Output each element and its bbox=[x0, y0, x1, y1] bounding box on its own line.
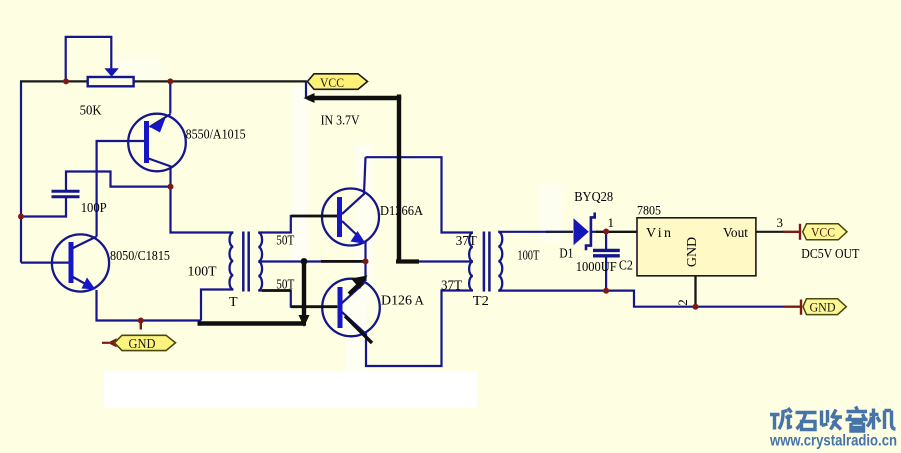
power port GND (right) bbox=[803, 299, 846, 315]
svg-text:100P: 100P bbox=[81, 201, 107, 216]
svg-text:Vin: Vin bbox=[646, 226, 671, 241]
black overdraw: Q3 base wire bbox=[291, 215, 337, 218]
transistor Q3 emitter with arrow bbox=[342, 221, 359, 237]
capacitor C1 100P plates bbox=[52, 190, 80, 193]
wire: Q3 collector to T2 primary top bbox=[366, 157, 473, 232]
junction dot node Q1 collector bbox=[168, 184, 174, 190]
capacitor C2 1000UF plates bbox=[593, 249, 620, 252]
svg-text:D126: D126 bbox=[381, 294, 412, 309]
transistor Q2 collector diagonal bbox=[73, 237, 97, 249]
wire: T secondary top to Q3 base bbox=[258, 216, 338, 233]
svg-text:2: 2 bbox=[675, 299, 690, 306]
svg-text:BYQ28: BYQ28 bbox=[574, 190, 613, 205]
wire: Q3 emitter junction vertical bbox=[364, 242, 366, 262]
svg-text:8550/A1015: 8550/A1015 bbox=[186, 128, 246, 143]
transistor Q3 collector diagonal bbox=[342, 157, 366, 214]
transistor Q4 emitter diagonal (up) bbox=[342, 283, 364, 303]
svg-text:37T: 37T bbox=[441, 279, 462, 294]
junction dot (black) centre tap bbox=[301, 258, 308, 265]
black overdraw: Q4 collector diagonal bbox=[345, 316, 372, 343]
junction dot node pot right / Q1 emitter bbox=[167, 78, 173, 84]
wire: T2 secondary bottom rail bbox=[498, 291, 783, 307]
wire: Q1 emitter feed from top rail bbox=[169, 81, 171, 113]
transistor Q2 emitter with arrow bbox=[73, 277, 90, 287]
wire: C2 bottom lead bbox=[605, 256, 607, 291]
erased white streak near diode bbox=[540, 184, 562, 242]
wire: Vout pin to flag (black) bbox=[756, 231, 784, 233]
junction dot node C2 bottom bbox=[603, 288, 609, 294]
svg-text:C2: C2 bbox=[619, 259, 633, 274]
wire: Q4 collector to T2 primary bottom bbox=[366, 291, 473, 367]
black overdraw: emitter junction line bbox=[321, 260, 364, 263]
svg-text:3: 3 bbox=[777, 215, 784, 230]
wire: Q2 base feed bbox=[21, 262, 69, 264]
svg-text:8050/C1815: 8050/C1815 bbox=[110, 249, 170, 264]
power port GND (left) with red arrow bbox=[102, 342, 109, 344]
svg-text:DC5V OUT: DC5V OUT bbox=[801, 247, 859, 262]
svg-text:1000UF: 1000UF bbox=[576, 260, 617, 275]
svg-text:VCC: VCC bbox=[320, 75, 344, 90]
regulator U1 7805 body bbox=[637, 218, 756, 276]
svg-text:50K: 50K bbox=[80, 103, 102, 118]
wire: T secondary bottom to Q4 base bbox=[258, 291, 338, 307]
transistor Q4 collector diagonal (down) bbox=[342, 312, 366, 334]
svg-text:GND: GND bbox=[685, 237, 700, 267]
thick black annotation: centre tap to ground bbox=[302, 263, 306, 318]
wire: top rail (black annotated) bbox=[20, 80, 307, 82]
wire: Q1 collector down to transformer T bbox=[171, 166, 234, 233]
transformer T2 secondary coil 100T bbox=[498, 232, 502, 291]
thick black annotation: ground rail bbox=[198, 321, 307, 325]
erased white streak near potentiometer bbox=[113, 57, 161, 81]
wire: cathode to 7805 Vin (black) bbox=[596, 231, 637, 233]
svg-text:VCC: VCC bbox=[811, 225, 835, 240]
wire: pot wiper loop bbox=[66, 37, 112, 82]
wire: T secondary centre tap line bbox=[258, 260, 365, 262]
black overdraw: Q4 base wire bbox=[291, 305, 337, 308]
wire: T2 primary centre tap bbox=[399, 260, 473, 262]
svg-text:GND: GND bbox=[810, 300, 836, 315]
svg-text:50T: 50T bbox=[276, 233, 294, 248]
transistor Q2 base bar bbox=[69, 242, 74, 283]
transistor Q3 base bar bbox=[337, 197, 342, 237]
wire: T2 secondary top to diode anode bbox=[498, 231, 573, 233]
wire: 100P top lead to Q1 collector bbox=[66, 172, 169, 192]
potentiometer wiper arrow bbox=[104, 68, 118, 77]
junction dot node diode/C2/Vin bbox=[603, 229, 609, 235]
thick black annotation: VCC feed line with arrow bbox=[308, 98, 399, 261]
wire: C2 top lead bbox=[605, 232, 607, 251]
svg-text:1: 1 bbox=[608, 215, 615, 230]
watermark crystalradio logo (CJK strokes) bbox=[770, 407, 896, 432]
svg-text:T2: T2 bbox=[473, 294, 489, 309]
svg-text:D1266A: D1266A bbox=[380, 204, 424, 219]
wire: T primary bottom return bbox=[201, 290, 233, 321]
svg-text:A: A bbox=[415, 293, 425, 308]
diode D1 BYQ28 triangle bbox=[574, 218, 589, 245]
wire: diode cathode stub bbox=[591, 231, 598, 233]
transformer T secondary coils 50T+50T bbox=[258, 233, 262, 291]
transistor Q2 8050/C1815 circle bbox=[52, 234, 109, 291]
wire: VCC flag stub down to annotation bbox=[305, 83, 307, 98]
wire: Q4 emitter junction vertical bbox=[364, 262, 366, 282]
transformer T2 primary coils 37T+37T bbox=[469, 233, 473, 291]
transformer T2 core bbox=[483, 232, 486, 292]
transistor Q1 emitter with arrow bbox=[150, 114, 171, 127]
transformer T primary coil 100T bbox=[229, 233, 233, 290]
transformer T core bbox=[242, 232, 245, 292]
wire red stub to GND flag (right) bbox=[783, 306, 801, 308]
svg-text:T: T bbox=[229, 295, 238, 310]
big white erased rectangle bbox=[104, 372, 477, 409]
junction dot node emitter junction bbox=[363, 258, 369, 264]
transistor Q1 collector diagonal bbox=[149, 159, 172, 167]
svg-text:7805: 7805 bbox=[637, 203, 661, 218]
transistor Q1 8550/A1015 circle bbox=[128, 114, 186, 172]
wire: Q1 base vertical from Q2 collector bbox=[97, 141, 145, 237]
svg-text:IN 3.7V: IN 3.7V bbox=[321, 113, 360, 128]
svg-text:100T: 100T bbox=[517, 249, 539, 264]
transistor Q3 D1266A circle bbox=[322, 189, 379, 246]
black overdraw: 50T bottom lead bbox=[262, 289, 291, 292]
wire: left rail vertical bbox=[20, 81, 22, 262]
diode D1 cathode bar with schottky hooks bbox=[586, 213, 595, 251]
GND stub below ground rail bbox=[140, 321, 142, 330]
junction dot node ground rail bbox=[138, 318, 144, 324]
transistor Q4 D1266A circle bbox=[322, 279, 380, 337]
svg-text:www.crystalradio.cn: www.crystalradio.cn bbox=[769, 433, 897, 450]
potentiometer R1 50K body bbox=[88, 77, 134, 86]
junction dot node left rail / 100P bbox=[18, 214, 24, 220]
svg-text:37T: 37T bbox=[456, 234, 477, 249]
wire: 100P bottom lead to left rail bbox=[21, 197, 66, 217]
junction dot node 7805 GND bbox=[693, 304, 699, 310]
black annotation: Q4 emitter arrow bbox=[349, 284, 360, 295]
wire: 7805 GND pin (black) bbox=[694, 276, 696, 307]
transistor Q4 base bar bbox=[338, 287, 343, 328]
svg-text:Vout: Vout bbox=[723, 226, 748, 241]
power port VCC (top) bbox=[307, 74, 367, 90]
wire red stub to VCC flag (right) bbox=[783, 231, 800, 233]
junction dot node pot left bbox=[63, 78, 69, 84]
svg-text:GND: GND bbox=[129, 336, 156, 351]
erased white streak band A bbox=[292, 86, 308, 262]
power port VCC (right) bbox=[803, 224, 847, 240]
transistor Q1 base bar bbox=[144, 121, 149, 163]
erased white streak band B bbox=[356, 143, 373, 303]
svg-text:D1: D1 bbox=[559, 247, 573, 262]
svg-text:100T: 100T bbox=[188, 265, 217, 280]
wire: Q2 emitter to ground rail bbox=[97, 290, 202, 321]
erased white streak band C bbox=[346, 298, 367, 374]
wire: anode feed overdraw (black) bbox=[546, 231, 573, 233]
